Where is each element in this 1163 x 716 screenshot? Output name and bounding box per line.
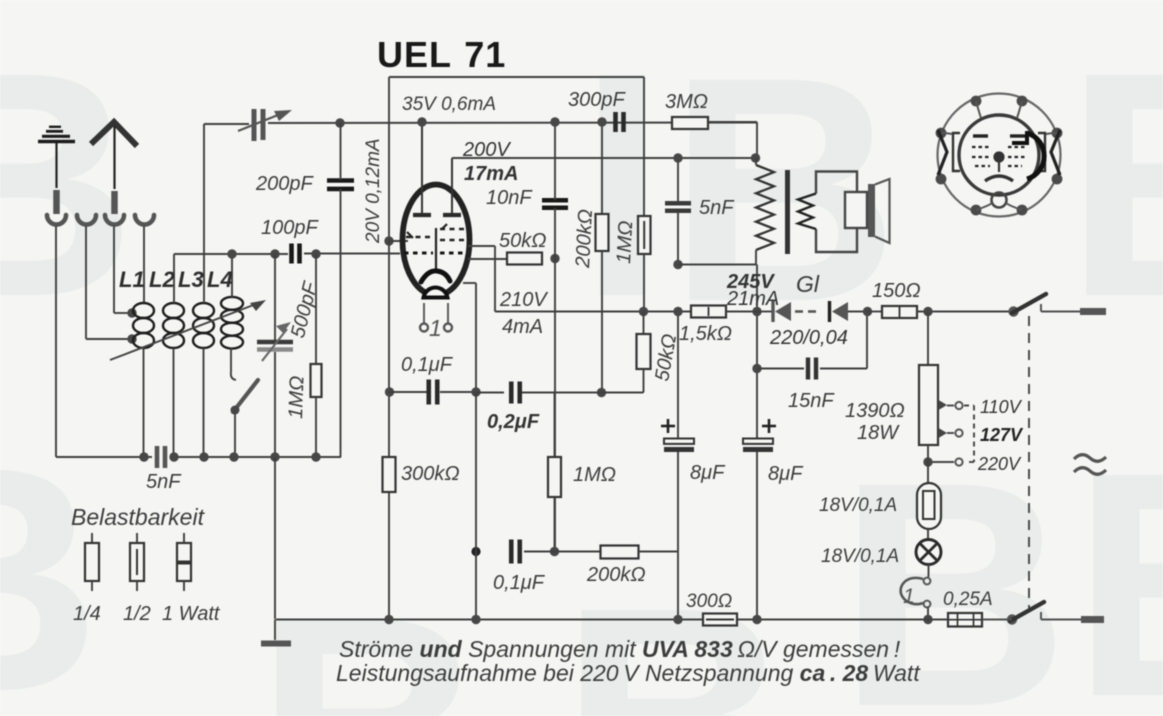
node 15nF branch	[752, 364, 761, 373]
earth/antenna ground symbol	[38, 127, 75, 188]
label 200k AF	[586, 564, 646, 586]
svg-text:0,2μF: 0,2μF	[487, 411, 540, 433]
label 500pF	[287, 278, 322, 340]
label L4	[207, 267, 233, 292]
svg-text:200pF: 200pF	[255, 173, 314, 195]
svg-text:220V: 220V	[977, 454, 1022, 474]
transformer secondary	[798, 172, 857, 253]
plug pin (earth lead)	[53, 190, 60, 214]
svg-text:L2: L2	[149, 267, 175, 292]
label 35V 0,6mA	[402, 94, 496, 115]
trimmer capacitor	[238, 109, 292, 141]
svg-text:200kΩ: 200kΩ	[586, 564, 646, 586]
capacitor 0,1uF (AF)	[511, 540, 520, 564]
node 8uF1 rail	[673, 615, 682, 624]
wire 3M corner	[708, 122, 757, 158]
svg-text:35V 0,6mA: 35V 0,6mA	[402, 94, 496, 115]
node 8uF-1 210V	[673, 307, 682, 316]
node 220V tap	[923, 457, 932, 466]
label 220V	[977, 454, 1022, 474]
wire grid stub	[389, 240, 408, 242]
svg-text:B: B	[0, 5, 136, 363]
wire 200pF branch	[340, 123, 342, 457]
socket cup 4	[135, 215, 154, 224]
wire 15nF left	[757, 368, 804, 370]
legend resistor 1/4W	[85, 533, 99, 591]
note line 1	[339, 636, 901, 662]
wire L1 bottom	[143, 348, 145, 457]
node trimmer junction	[335, 118, 344, 127]
node cath rail	[471, 615, 480, 624]
capacitor 0,2uF	[511, 382, 520, 404]
label 15nF	[788, 390, 835, 412]
label 18V/0,1A ballast	[819, 495, 897, 516]
wire 15nF right	[820, 312, 867, 369]
capacitor 0,1uF (cathode)	[429, 380, 438, 405]
svg-text:1: 1	[429, 315, 442, 341]
svg-text:L3: L3	[178, 267, 204, 292]
svg-text:Leistungsaufnahme bei 220 V Ne: Leistungsaufnahme bei 220 V Netzspannung…	[336, 660, 921, 686]
node 200k bottom	[597, 388, 606, 397]
node L3 rail	[199, 452, 208, 461]
wire earth down	[55, 226, 57, 457]
wire to 1390R	[927, 312, 929, 366]
node 1M-0,1uF	[550, 547, 559, 556]
label 210V	[499, 289, 548, 311]
svg-text:1MΩ: 1MΩ	[573, 464, 616, 486]
label 0,1uF cathode	[401, 354, 454, 376]
svg-text:20V 0,12mA: 20V 0,12mA	[363, 138, 384, 244]
wire cath-rail	[475, 392, 477, 619]
label 50k bias	[651, 332, 681, 383]
label 18V/0,1A lamp	[821, 546, 899, 567]
svg-text:L1: L1	[119, 267, 145, 292]
wire L3 top	[203, 124, 205, 303]
label 200pF	[255, 173, 314, 195]
svg-text:B: B	[1072, 405, 1163, 716]
label L3	[178, 267, 204, 292]
resistor 3M	[672, 117, 708, 129]
svg-text:UEL 71: UEL 71	[377, 34, 506, 75]
capacitor 200pF	[327, 181, 354, 189]
node rectifier out	[863, 307, 872, 316]
node grid tap	[384, 236, 393, 245]
svg-text:50kΩ: 50kΩ	[499, 230, 546, 252]
resistor 200k (screen)	[596, 122, 609, 392]
svg-text:B: B	[255, 550, 486, 716]
label dial lamp 1	[903, 585, 915, 608]
svg-text:5nF: 5nF	[699, 197, 735, 219]
wire 10nF branch	[554, 122, 556, 258]
mains switch (lower pole)	[982, 602, 1104, 625]
resistor 300R	[703, 614, 737, 626]
resistor 1M (feedback)	[638, 77, 651, 311]
mains switch (upper pole)	[1008, 294, 1106, 317]
label 21mA	[726, 288, 779, 310]
note line 2	[336, 660, 921, 686]
svg-text:0,1μF: 0,1μF	[401, 354, 454, 376]
wire switch to rail	[234, 412, 236, 457]
coil L3	[193, 303, 214, 348]
rectifier Gl 220/0,04	[773, 301, 867, 322]
svg-text:0,25A: 0,25A	[943, 589, 993, 610]
svg-text:220/0,04: 220/0,04	[769, 327, 848, 349]
label 1390R	[845, 400, 905, 422]
label 18W	[857, 422, 900, 444]
legend label 1/2	[123, 603, 151, 625]
node L1 upper tap	[127, 308, 136, 317]
node 1M rail	[311, 249, 320, 258]
chassis ground	[261, 620, 291, 644]
label 0,2uF	[487, 411, 540, 433]
label 127V	[980, 425, 1024, 445]
wire chassis link	[274, 457, 276, 619]
label Gl	[796, 271, 820, 297]
legend Belastbarkeit	[71, 504, 206, 530]
wire L4 to switch contact	[231, 348, 236, 380]
svg-text:10nF: 10nF	[486, 187, 533, 209]
svg-text:1390Ω: 1390Ω	[845, 400, 905, 422]
label 20V 0,12mA	[363, 138, 384, 244]
svg-text:L4: L4	[207, 267, 233, 292]
node 5nF bottom	[673, 260, 682, 269]
svg-text:210V: 210V	[499, 289, 548, 311]
tap 220V	[928, 458, 963, 465]
label 8uF second	[768, 463, 804, 485]
coil L4	[221, 297, 243, 349]
resistor 1M (AF leak)	[548, 393, 561, 551]
svg-text:21mA: 21mA	[726, 288, 779, 310]
svg-text:8μF: 8μF	[768, 463, 804, 485]
wire 150R out	[917, 311, 1013, 313]
tap 110V	[939, 400, 963, 410]
node 1M rail bottom	[311, 452, 320, 461]
antenna symbol	[91, 122, 137, 189]
node rectifier 245V	[752, 307, 761, 316]
resistor 200k (AF)	[601, 546, 639, 559]
resistor 50k (coupling)	[507, 253, 542, 265]
wire L3 bottom	[203, 348, 205, 457]
transformer primary	[756, 158, 774, 265]
wire to 50k	[468, 258, 507, 260]
node L4 rail	[227, 249, 236, 258]
socket cup 2	[77, 215, 96, 225]
node 1M 210V	[639, 307, 648, 316]
label 150R	[872, 280, 921, 302]
svg-text:1: 1	[903, 585, 915, 608]
tube UEL71	[403, 122, 470, 298]
label 1M AF	[573, 464, 616, 486]
wire selector down	[927, 445, 929, 483]
capacitor 15nF	[808, 358, 816, 380]
svg-text:127V: 127V	[980, 425, 1024, 445]
node 200k rail	[597, 117, 606, 126]
svg-text:Gl: Gl	[796, 271, 820, 297]
coil L1	[133, 303, 154, 348]
resistor 300k	[383, 457, 396, 492]
variable capacitor 500pF	[257, 254, 293, 457]
legend label 1 Watt	[162, 603, 221, 625]
wire feedback frame	[389, 77, 644, 241]
label 110V	[980, 397, 1023, 417]
wire 8uF-2 branch	[756, 265, 758, 620]
resistor 1,5k	[691, 306, 726, 318]
svg-text:110V: 110V	[980, 397, 1023, 417]
tap 127V	[939, 428, 963, 438]
svg-text:1/2: 1/2	[123, 603, 151, 625]
tube heater pins	[420, 303, 452, 332]
coil L2	[163, 303, 184, 348]
node 500pF rail	[270, 249, 279, 258]
label pin 1	[429, 315, 442, 341]
wire cup2 to L1 tap	[86, 226, 130, 339]
resistor 150R	[882, 306, 917, 318]
wire AF node	[390, 391, 428, 393]
socket cup 1	[47, 215, 66, 225]
svg-text:4mA: 4mA	[502, 316, 543, 338]
wire 1,5k-245V	[726, 311, 772, 313]
svg-text:1,5kΩ: 1,5kΩ	[679, 323, 732, 345]
resistor 1M (grid leak left)	[311, 254, 322, 457]
label 100pF	[261, 217, 319, 239]
resistor 1390R 18W	[919, 365, 938, 445]
legend resistor 1/2W	[130, 533, 144, 591]
svg-text:Ströme und Spannungen mit UVA: Ströme und Spannungen mit UVA 833 Ω/V ge…	[339, 636, 901, 662]
node switch rail	[229, 452, 238, 461]
svg-text:1MΩ: 1MΩ	[285, 375, 308, 419]
node 0.1uF left	[385, 387, 394, 396]
label 300R	[686, 591, 732, 612]
svg-text:17mA: 17mA	[464, 163, 518, 185]
wire L2 bottom	[173, 348, 175, 457]
label 1M feedback	[613, 220, 637, 264]
node cathode AF	[471, 387, 480, 396]
node chassis link rail	[270, 452, 279, 461]
wire 0,1uF-200k	[524, 551, 600, 553]
label 8uF first	[690, 462, 726, 484]
capacitor 100pF	[292, 244, 300, 264]
wire L2 top	[173, 254, 175, 303]
wire 0,1-0,2	[440, 391, 476, 393]
svg-text:I: I	[578, 5, 667, 363]
resistor 50k (bias)	[637, 311, 651, 393]
dial lamp holder	[901, 564, 931, 618]
svg-text:300Ω: 300Ω	[686, 591, 732, 612]
label 245V	[726, 271, 775, 293]
svg-text:300pF: 300pF	[568, 89, 626, 111]
svg-text:18V/0,1A: 18V/0,1A	[819, 495, 897, 516]
node mains branch	[923, 307, 932, 316]
node anode rail	[417, 117, 426, 126]
label 10nF	[486, 187, 533, 209]
node 5nF top	[673, 153, 682, 162]
wire 8uF-1 branch	[677, 312, 679, 620]
label 220/0,04	[769, 327, 848, 349]
svg-text:300kΩ: 300kΩ	[401, 463, 460, 485]
svg-text:18V/0,1A: 18V/0,1A	[821, 546, 899, 567]
node 50k out	[550, 254, 559, 263]
svg-text:B: B	[1065, 5, 1163, 363]
grid rail	[174, 253, 400, 256]
coil tuning arrow	[110, 300, 266, 360]
svg-text:8μF: 8μF	[690, 462, 726, 484]
node 10nF rail	[550, 117, 559, 126]
wire L4 top	[231, 254, 233, 297]
svg-text:18W: 18W	[857, 422, 900, 444]
label L2	[149, 267, 175, 292]
capacitor 300pF	[616, 112, 624, 132]
svg-text:0,1μF: 0,1μF	[493, 572, 546, 594]
wire cathode down	[463, 283, 476, 392]
tube socket diagram	[936, 94, 1063, 217]
wire 200k-out	[639, 551, 678, 553]
svg-text:Belastbarkeit: Belastbarkeit	[71, 504, 206, 530]
label 1,5k	[679, 323, 732, 345]
node 8uF2 rail	[752, 615, 761, 624]
svg-text:5nF: 5nF	[146, 471, 182, 493]
node 0,1uF-2 left	[471, 547, 480, 556]
svg-text:1MΩ: 1MΩ	[613, 220, 637, 264]
label 300k	[401, 463, 460, 485]
svg-text:1 Watt: 1 Watt	[162, 603, 221, 625]
node lamp rail	[923, 615, 932, 624]
capacitor 5nF (antenna)	[157, 446, 165, 468]
svg-text:15nF: 15nF	[788, 390, 835, 412]
node L1 rail	[139, 452, 148, 461]
wire grid-leak down	[388, 241, 390, 619]
wire top rail	[204, 123, 757, 127]
wire left ground rail	[56, 456, 341, 458]
lamp 18V/0,1A	[916, 540, 941, 565]
capacitor 5nF (tone)	[665, 203, 691, 211]
svg-text:3MΩ: 3MΩ	[665, 91, 708, 113]
ballast tube 18V/0,1A	[917, 483, 941, 529]
wire to 150R	[867, 311, 882, 313]
capacitor 8uF (second)	[743, 419, 776, 450]
label 50k coupling	[499, 230, 546, 252]
svg-text:100pF: 100pF	[261, 217, 319, 239]
label 17mA	[464, 163, 518, 185]
capacitor 8uF (first)	[661, 419, 694, 450]
label 5nF tone	[699, 197, 735, 219]
legend resistor 1W	[177, 533, 191, 591]
wire ballast-lamp	[927, 529, 929, 541]
label 4mA	[502, 316, 543, 338]
transformer core	[785, 170, 790, 254]
label 3M	[665, 91, 708, 113]
plug pin (antenna lead)	[111, 191, 118, 214]
svg-text:150Ω: 150Ω	[872, 280, 921, 302]
wire antenna to L1 tap	[114, 226, 130, 313]
legend label 1/4	[73, 603, 101, 625]
label 200V	[462, 139, 511, 161]
label L1	[119, 267, 145, 292]
wire 200V line	[452, 157, 754, 159]
svg-text:200kΩ: 200kΩ	[572, 209, 597, 270]
wire 210V line	[495, 311, 691, 313]
label 200k screen	[572, 209, 597, 270]
loudspeaker	[845, 179, 890, 243]
waveband switch blade	[233, 380, 258, 412]
switch link (dashed)	[1028, 316, 1030, 608]
wire bottom rail	[276, 619, 948, 621]
label 300pF	[568, 89, 626, 111]
node L1 lower tap	[127, 334, 136, 343]
label 1M left	[285, 375, 308, 419]
label 0,1uF AF	[493, 572, 546, 594]
selector dashed strap	[964, 406, 974, 463]
label 5nF antenna	[146, 471, 182, 493]
node 300k rail	[384, 615, 393, 624]
wire primary bottom	[678, 264, 756, 266]
wire 0,2uF out	[522, 392, 644, 394]
mains AC symbol	[1074, 455, 1106, 475]
socket cup 3	[105, 215, 124, 225]
title UEL 71	[377, 34, 506, 75]
wire 5nF branch	[677, 158, 679, 264]
svg-text:1/4: 1/4	[73, 603, 101, 625]
fuse 0,25A	[948, 613, 982, 627]
label 0,25A	[943, 589, 993, 610]
node 200V end	[751, 153, 760, 162]
node L2 rail	[169, 452, 178, 461]
wire triode anode	[468, 246, 495, 312]
wire 50k-node down	[554, 259, 556, 551]
capacitor 10nF	[542, 200, 568, 208]
wire cup4 to L1 top	[143, 226, 145, 304]
waveband switch pivot	[231, 406, 240, 415]
wire to 0,2uF	[476, 392, 504, 394]
